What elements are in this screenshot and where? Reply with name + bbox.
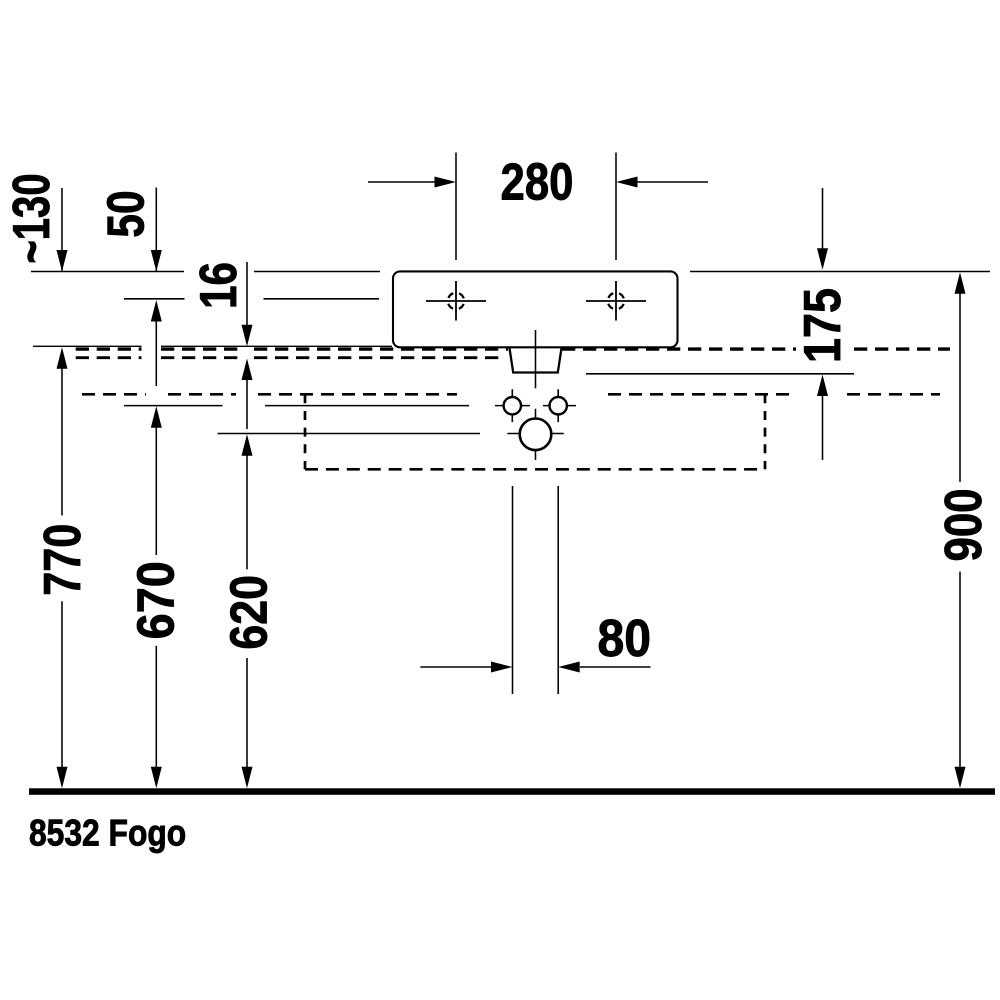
svg-text:~130: ~130 (2, 173, 60, 263)
svg-text:900: 900 (935, 488, 993, 561)
svg-text:770: 770 (34, 524, 92, 596)
svg-text:670: 670 (127, 561, 185, 639)
svg-text:16: 16 (190, 262, 248, 309)
svg-text:50: 50 (97, 190, 155, 237)
svg-text:8532 Fogo: 8532 Fogo (29, 813, 186, 854)
svg-text:280: 280 (501, 154, 574, 211)
svg-text:80: 80 (597, 609, 650, 667)
svg-text:175: 175 (794, 288, 852, 363)
svg-text:620: 620 (220, 575, 278, 650)
